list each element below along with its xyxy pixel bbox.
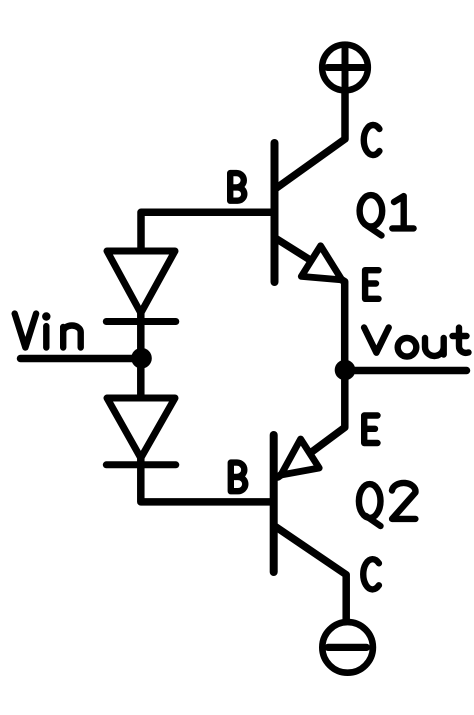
label Vin <box>15 312 81 347</box>
label C of Q1 <box>364 125 380 155</box>
label Q1 <box>360 195 414 235</box>
label C of Q2 <box>363 559 379 589</box>
Q1 base bar <box>271 143 279 282</box>
label B of Q2 <box>231 463 246 492</box>
wire base Q1 <box>141 212 275 251</box>
positive supply terminal <box>322 45 368 91</box>
Q2 emitter line <box>278 374 345 477</box>
wire collector Q1 to positive supply <box>277 92 346 188</box>
wire Vin <box>21 355 142 363</box>
diode D1 <box>106 251 176 322</box>
node Vin junction <box>131 348 152 369</box>
label E of Q2 <box>364 416 377 444</box>
Q1 emitter line <box>276 239 345 367</box>
wire Vout <box>345 367 467 375</box>
label Q2 <box>359 483 416 526</box>
wire base Q2 <box>141 458 273 502</box>
label Vout <box>364 328 468 357</box>
Q2 base bar <box>270 435 278 572</box>
label B of Q1 <box>230 173 244 201</box>
Q2 collector line <box>276 527 346 620</box>
wire diode junction <box>137 313 145 398</box>
Q2 emitter arrow <box>281 439 319 475</box>
transistor Q1 <box>275 143 345 366</box>
transistor Q2 <box>274 374 347 620</box>
label E of Q1 <box>365 270 378 299</box>
diode D2 <box>106 398 176 465</box>
negative supply terminal <box>322 622 373 673</box>
node Vout junction <box>335 360 356 381</box>
Q1 emitter arrow <box>301 246 342 280</box>
